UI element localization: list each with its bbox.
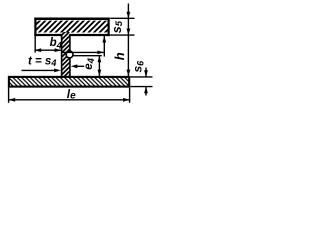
right leader arrowhead at web right face <box>71 64 78 68</box>
plate bottom extension line <box>130 86 152 88</box>
web right wall <box>69 35 71 77</box>
top flange bar: bottom edge left segment <box>34 34 62 36</box>
b4 left arrowhead <box>35 48 42 52</box>
s6 dimension line lower <box>145 87 147 96</box>
e4 bottom arrowhead <box>98 70 102 77</box>
bottom plate: hatched body <box>9 77 129 87</box>
s5 up arrowhead at bar bottom <box>127 29 131 36</box>
top flange bar: right end <box>107 18 109 36</box>
bar top extension line <box>110 17 134 19</box>
circle top tangent extension line <box>63 51 104 53</box>
long s5 dimension line at right <box>127 4 129 77</box>
top flange bar: top edge <box>34 18 109 21</box>
web left wall <box>61 35 63 77</box>
le right arrowhead <box>123 98 130 102</box>
le left extension line <box>8 88 10 103</box>
web: hatched body (opens into bar) <box>62 32 70 77</box>
svg-text:h: h <box>112 52 127 60</box>
svg-text:t = s4: t = s4 <box>28 55 56 68</box>
b4 extension line (below bar left end) <box>34 36 36 53</box>
circle center extension line <box>73 55 101 57</box>
right leader line <box>76 65 84 67</box>
le right extension line <box>129 88 131 103</box>
s6 down arrowhead <box>144 70 148 77</box>
le left arrowhead <box>9 98 16 102</box>
technical cross-section drawing: T-stiffener on plate with dimensions <box>0 0 159 121</box>
e4 dimension line <box>98 56 100 76</box>
t=s4 leader arrowhead <box>54 69 61 73</box>
s5 down arrowhead at bar top <box>127 12 131 19</box>
bottom plate: outline <box>9 77 129 87</box>
bar bottom extension line <box>110 34 135 36</box>
s6 up arrowhead <box>144 87 148 94</box>
top flange bar: hatched body <box>35 21 108 33</box>
h top arrowhead <box>102 36 106 43</box>
top flange bar: bottom edge right segment <box>69 34 109 36</box>
t=s4 leader line to web left face <box>22 69 57 71</box>
e4 top arrowhead <box>98 56 102 63</box>
h dimension line <box>103 36 105 57</box>
down arrowhead at plate top <box>127 70 131 77</box>
weld point circle on web <box>66 51 73 58</box>
b4 dimension line <box>35 49 62 51</box>
b4 right arrowhead <box>55 48 62 52</box>
s6 dimension line upper <box>145 68 147 77</box>
le dimension line <box>9 99 130 101</box>
tangent line right arrowhead <box>97 51 104 55</box>
top flange bar: left end <box>34 18 36 36</box>
plate top extension line <box>130 76 152 78</box>
